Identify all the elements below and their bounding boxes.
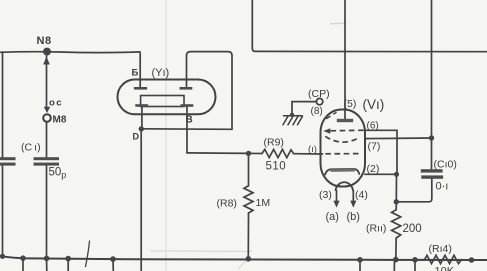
wire Y1 bottom-left lead <box>141 107 143 129</box>
svg-text:D: D <box>133 132 140 142</box>
capacitor C1 plate 1 <box>34 157 60 160</box>
resistor R8 zigzag <box>244 186 253 213</box>
tube V1 anode bar pin 5 <box>337 119 353 122</box>
svg-text:(ı): (ı) <box>308 144 317 155</box>
wire pin6 lead <box>365 130 397 174</box>
wire C10 bottom return <box>396 179 432 202</box>
wire top rail left <box>0 51 140 54</box>
junction bus R8 lead <box>246 256 252 262</box>
svg-text:(C ı): (C ı) <box>21 142 41 154</box>
crystal Y1 envelope <box>118 80 216 115</box>
smudge above bus <box>150 250 252 253</box>
wire R11 top lead <box>395 202 397 210</box>
svg-text:(Rı4): (Rı4) <box>429 243 452 255</box>
node D junction dot <box>139 126 144 131</box>
wire R9 to tube pin 1 <box>294 153 323 155</box>
wire Y1 B lead to grid node <box>187 152 249 155</box>
junction bus C1 lead <box>44 256 50 262</box>
resistor R11 zigzag <box>392 210 401 238</box>
resistor R9 zigzag <box>262 149 294 157</box>
junction node N8 <box>43 48 51 56</box>
smudge below R8 bus dot <box>238 260 247 269</box>
wire Y1 feedback horizontal <box>141 128 232 131</box>
tube V1 dome dashes <box>326 112 336 119</box>
wire Y1 top-left lead <box>139 52 141 88</box>
svg-text:(Cı0): (Cı0) <box>434 159 457 171</box>
node grid junction dot R9/R8 <box>246 151 251 156</box>
arrow down above M8 circle <box>44 107 50 113</box>
svg-text:510: 510 <box>266 161 287 173</box>
svg-text:M8: M8 <box>53 115 67 126</box>
tube V1 control grid pin1 dashed <box>325 153 360 155</box>
socket circle M8 <box>43 114 51 122</box>
ground chassis symbol <box>283 116 303 125</box>
svg-text:(3): (3) <box>319 189 332 201</box>
svg-text:(b): (b) <box>347 211 360 223</box>
svg-text:(Rıı): (Rıı) <box>366 223 386 235</box>
svg-text:(a): (a) <box>326 211 339 223</box>
svg-text:(6): (6) <box>367 121 379 132</box>
heater arrow pin3 <box>333 201 339 208</box>
heater arrow pin4 <box>350 201 356 208</box>
svg-text:(4): (4) <box>355 189 368 201</box>
wire slash crossing bus <box>86 241 90 267</box>
svg-text:(Yı): (Yı) <box>152 67 170 79</box>
smudge top right <box>330 22 346 25</box>
wire cathode node down to C10 return <box>395 174 397 202</box>
tube V1 cathode coating bar <box>331 169 356 172</box>
wire R8 bottom lead to bus <box>247 213 249 259</box>
wire grid node to R9 <box>249 152 263 154</box>
junction bus left end <box>0 254 5 259</box>
svg-text:(2): (2) <box>367 163 380 175</box>
svg-text:(Vı): (Vı) <box>363 97 385 112</box>
junction bus R14 left <box>412 257 418 263</box>
wire R11 bottom lead to bus <box>395 238 397 260</box>
svg-text:10K: 10K <box>435 266 455 271</box>
capacitor at left edge plate 2 <box>0 163 16 166</box>
wire stub below bus x23 <box>22 258 24 271</box>
svg-text:(R9): (R9) <box>264 137 284 149</box>
wire stub below bus x46 <box>46 258 48 271</box>
junction bus R14 right <box>469 257 475 263</box>
resistor R14 zigzag in bus <box>415 255 462 263</box>
paper crease <box>165 0 167 271</box>
tube V1 base bump <box>336 182 354 191</box>
arrow up below N8 <box>43 57 50 65</box>
tube V1 curved grid dashed <box>325 136 360 142</box>
wire pin5 top lead <box>344 0 346 119</box>
wire top staple B+ rail <box>252 0 487 52</box>
ground junction blob <box>290 113 294 117</box>
wire Y1 top-right lead and loop to right <box>187 52 233 130</box>
tube V1 heater lead pin3 <box>336 191 338 202</box>
wire stub below bus x360 <box>359 260 361 271</box>
svg-text:(7): (7) <box>368 141 381 153</box>
tube V1 cathode bracket <box>325 169 360 175</box>
svg-text:N8: N8 <box>37 35 52 47</box>
wire left vertical <box>2 52 4 256</box>
svg-text:(CP): (CP) <box>308 88 330 100</box>
svg-text:1M: 1M <box>256 197 271 209</box>
svg-text:(8): (8) <box>311 106 323 117</box>
svg-text:Б: Б <box>132 68 139 79</box>
tube V1 envelope <box>321 110 366 187</box>
svg-text:(R8): (R8) <box>217 198 237 210</box>
wire CP to ground <box>292 102 316 115</box>
junction bus x360 <box>357 257 363 263</box>
wire stub below bus x113 <box>112 259 114 271</box>
capacitor at left edge plate 1 <box>0 157 16 160</box>
junction bus x113 <box>110 256 116 262</box>
wire Y1 left lead down to bus and below <box>140 129 142 271</box>
capacitor C10 plate 2 <box>421 175 443 178</box>
wire bottom bus <box>0 256 487 260</box>
wire C1 to bus <box>46 165 48 258</box>
wire Y1 bottom-right lead down <box>186 107 188 153</box>
junction bus R11 lead <box>393 257 399 263</box>
crystal Y1 top-left electrode <box>134 87 147 90</box>
crystal Y1 quartz plate rectangle <box>141 96 184 107</box>
terminal CP circle <box>316 98 322 104</box>
wire stub below bus x394 <box>393 260 395 271</box>
tube V1 grid pin6 dashed line <box>331 129 365 132</box>
junction bus x23 <box>20 255 26 261</box>
capacitor C1 plate 2 <box>34 163 60 166</box>
node pin7/C10 junction dot <box>429 135 434 140</box>
wire N8 to C1 vertical <box>46 56 48 157</box>
wire R8 top lead <box>248 153 250 185</box>
svg-text:B: B <box>186 115 193 126</box>
crystal Y1 bottom-left electrode <box>135 104 148 107</box>
crystal Y1 bottom-right electrode <box>181 104 194 107</box>
svg-text:200: 200 <box>403 223 422 235</box>
crystal Y1 top-right electrode <box>180 87 193 90</box>
wire pin2 lead <box>365 173 397 175</box>
svg-text:0·ı: 0·ı <box>436 181 449 193</box>
wire anode rail vertical to C10 <box>431 0 433 169</box>
wire pin7 lead <box>365 137 432 140</box>
svg-text:oc: oc <box>49 98 63 109</box>
node pin2 junction dot <box>394 172 399 177</box>
tube V1 grid pin6 arrowhead <box>323 128 330 133</box>
wire stub below bus x68 <box>67 259 69 271</box>
svg-text:(5): (5) <box>344 98 357 110</box>
tube V1 heater lead pin4 <box>352 191 354 202</box>
junction bus x68 <box>65 256 71 262</box>
node C10 return junction dot <box>394 199 399 204</box>
capacitor C10 plate 1 <box>421 169 443 172</box>
wire stub below bus x415 <box>414 260 416 271</box>
